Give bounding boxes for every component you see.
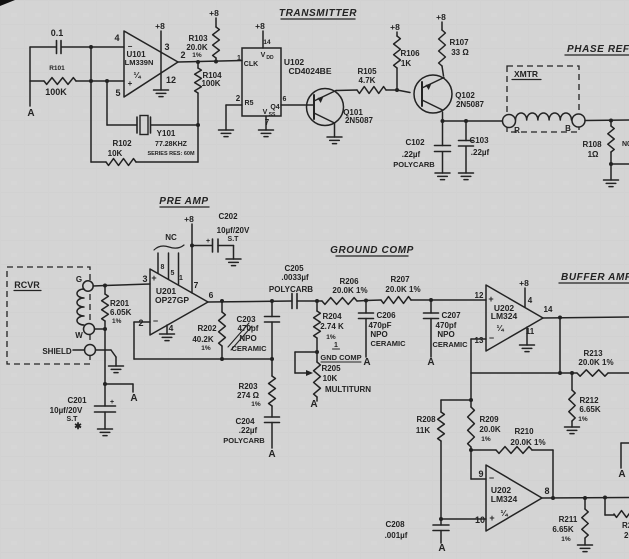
capacitor C201 10uf: [50, 396, 116, 431]
capacitor C205 .0033uf polycarb: [269, 264, 317, 309]
svg-text:1: 1: [179, 275, 183, 282]
capacitor C206 470pF: [359, 301, 407, 358]
svg-text:Q4: Q4: [270, 104, 279, 111]
svg-text:6.65K: 6.65K: [552, 525, 574, 534]
svg-text:G: G: [76, 275, 82, 284]
svg-text:−: −: [128, 42, 133, 51]
ground C102: [435, 173, 450, 180]
svg-text:A: A: [27, 108, 34, 119]
svg-text:20.0K 1%: 20.0K 1%: [578, 358, 613, 367]
svg-text:R201: R201: [110, 299, 130, 308]
svg-text:C207: C207: [441, 311, 461, 320]
node R204 junction: [315, 299, 319, 303]
svg-text:A: A: [427, 357, 434, 368]
svg-text:R209: R209: [479, 415, 499, 424]
svg-text:5: 5: [171, 270, 175, 277]
svg-text:.22µf: .22µf: [402, 150, 421, 159]
svg-text:✱: ✱: [74, 421, 82, 431]
wire main node down: [104, 329, 106, 406]
svg-text:+: +: [110, 399, 114, 406]
wire pin9: [471, 450, 486, 479]
power +8 U201 pin7: [184, 214, 194, 293]
ground SHIELD: [109, 366, 124, 373]
resistor R105 4.7K: [357, 67, 386, 93]
ground C202: [226, 259, 241, 266]
svg-text:OP27GP: OP27GP: [155, 295, 189, 305]
ground U102 RS: [219, 130, 234, 137]
svg-text:−: −: [489, 333, 494, 343]
svg-text:9: 9: [478, 469, 483, 479]
svg-text:RCVR: RCVR: [14, 280, 40, 290]
svg-text:R2: R2: [622, 521, 629, 530]
svg-text:4: 4: [114, 33, 119, 43]
svg-text:2: 2: [180, 50, 185, 60]
svg-text:6.05K: 6.05K: [110, 308, 132, 317]
svg-text:V: V: [261, 52, 266, 59]
svg-text:R202: R202: [197, 324, 217, 333]
nc pins bracket: [154, 233, 184, 285]
svg-text:0.1: 0.1: [51, 28, 64, 38]
svg-text:20.0K 1%: 20.0K 1%: [385, 285, 420, 294]
svg-text:A: A: [438, 543, 445, 554]
op-amp U101 LM339N: [114, 31, 178, 98]
svg-text:+8: +8: [390, 22, 400, 32]
svg-text:R5: R5: [245, 100, 254, 107]
ground U101 pin12: [154, 90, 169, 97]
svg-text:33 Ω: 33 Ω: [451, 48, 469, 57]
svg-text:10K: 10K: [323, 374, 338, 383]
wire G to U201 pin3: [93, 284, 150, 288]
svg-text:W: W: [75, 331, 83, 340]
svg-text:R206: R206: [339, 277, 359, 286]
wire Q101 emitter to R105: [336, 89, 357, 92]
svg-text:100K: 100K: [201, 79, 220, 88]
svg-text:14: 14: [544, 305, 553, 314]
svg-text:20.0K: 20.0K: [479, 425, 501, 434]
wire R101 to U101 pin5: [76, 79, 124, 83]
svg-text:+: +: [151, 273, 156, 283]
svg-text:+8: +8: [255, 21, 265, 31]
svg-text:B: B: [565, 124, 571, 133]
heading BUFFER AMP: [559, 272, 629, 283]
svg-text:1%: 1%: [112, 318, 122, 325]
resistor R103 20.0K: [186, 8, 219, 62]
resistor R201 6.05K: [102, 286, 132, 329]
svg-text:C102: C102: [405, 138, 425, 147]
node C207 junction: [429, 298, 433, 302]
power +8 U202a pin4: [519, 278, 529, 307]
resistor R211 6.65K: [552, 498, 588, 545]
svg-text:−: −: [153, 316, 158, 326]
svg-text:3: 3: [164, 42, 169, 52]
terminal SHIELD: [42, 345, 95, 357]
terminal G: [76, 275, 93, 291]
svg-text:20.0K 1%: 20.0K 1%: [510, 438, 545, 447]
correction scribble: [228, 323, 252, 350]
capacitor C208 .001uf: [385, 519, 449, 543]
svg-text:C205: C205: [284, 264, 304, 273]
resistor R208 11K: [416, 400, 445, 521]
capacitor C103 .22uf: [459, 121, 490, 173]
svg-text:20: 20: [624, 531, 629, 540]
svg-text:1%: 1%: [251, 401, 261, 408]
svg-text:4: 4: [528, 296, 533, 305]
svg-text:8: 8: [544, 486, 549, 496]
svg-text:NPO: NPO: [370, 330, 387, 339]
svg-text:.22µf: .22µf: [239, 426, 258, 435]
svg-text:POLYCARB: POLYCARB: [393, 160, 435, 169]
heading GROUND COMP: [330, 245, 414, 256]
svg-text:R213: R213: [583, 349, 603, 358]
svg-text:11K: 11K: [416, 426, 430, 435]
svg-text:R207: R207: [390, 275, 410, 284]
node A (R205): [310, 399, 317, 410]
resistor R202 40.2K: [192, 299, 225, 359]
svg-text:1Ω: 1Ω: [588, 150, 599, 159]
terminal R: [503, 115, 521, 136]
svg-text:8: 8: [161, 264, 165, 271]
svg-text:1: 1: [334, 342, 338, 349]
node A (C206): [363, 357, 370, 368]
svg-text:470pF: 470pF: [368, 321, 391, 330]
terminal W: [75, 324, 94, 341]
svg-text:+8: +8: [184, 214, 194, 224]
svg-text:−: −: [489, 473, 494, 483]
svg-text:12: 12: [475, 291, 484, 300]
svg-text:1%: 1%: [481, 436, 491, 443]
svg-text:BUFFER AMP: BUFFER AMP: [561, 272, 629, 283]
svg-text:+: +: [128, 79, 133, 88]
svg-text:R103: R103: [188, 34, 208, 43]
svg-text:1%: 1%: [192, 52, 202, 59]
svg-text:40.2K: 40.2K: [192, 335, 214, 344]
capacitor C207 470pf: [424, 300, 469, 357]
svg-text:C203: C203: [236, 315, 256, 324]
svg-text:LM324: LM324: [491, 494, 518, 504]
ground R212: [565, 427, 580, 434]
svg-text:TRANSMITTER: TRANSMITTER: [279, 8, 357, 19]
svg-text:R205: R205: [321, 364, 341, 373]
svg-text:MULTITURN: MULTITURN: [325, 385, 371, 394]
svg-text:77.28KHZ: 77.28KHZ: [155, 141, 188, 148]
capacitor 0.1: [51, 28, 64, 54]
svg-text:1%: 1%: [578, 416, 588, 423]
svg-text:1K: 1K: [401, 59, 411, 68]
wire U202a output: [543, 316, 629, 320]
svg-text:20.0K: 20.0K: [186, 43, 208, 52]
svg-text:C204: C204: [235, 417, 255, 426]
svg-text:Y101: Y101: [157, 129, 176, 138]
resistor R210 20.0K: [471, 427, 553, 498]
svg-text:SERIES RES: 60M: SERIES RES: 60M: [147, 151, 194, 157]
svg-text:A: A: [130, 393, 137, 404]
svg-text:+8: +8: [436, 12, 446, 22]
svg-text:¼: ¼: [496, 323, 504, 333]
crystal Y101 77.28KHz: [137, 116, 195, 158]
svg-text:10K: 10K: [108, 149, 123, 158]
svg-text:CD4024BE: CD4024BE: [289, 66, 332, 76]
svg-text:PRE AMP: PRE AMP: [159, 196, 208, 207]
svg-text:LM324: LM324: [491, 311, 518, 321]
svg-text:PHASE REFE: PHASE REFE: [567, 44, 629, 55]
wire U201 output: [208, 301, 292, 302]
ground C201: [98, 429, 113, 436]
power +8 U102 VDD: [255, 21, 271, 48]
transformer XMTR box: [507, 66, 579, 132]
svg-text:.0033µf: .0033µf: [281, 273, 309, 282]
svg-text:R210: R210: [514, 427, 534, 436]
ground C103: [459, 173, 474, 180]
node A (C207): [427, 357, 434, 368]
resistor R102 10K: [91, 125, 198, 165]
svg-text:C202: C202: [218, 212, 238, 221]
heading TRANSMITTER: [279, 8, 357, 19]
svg-text:C206: C206: [376, 311, 396, 320]
svg-text:470pf: 470pf: [238, 324, 259, 333]
svg-text:4: 4: [169, 323, 174, 333]
svg-text:+8: +8: [519, 278, 529, 288]
svg-text:1%: 1%: [201, 345, 211, 352]
svg-text:A: A: [363, 357, 370, 368]
resistor R204 2.74K: [314, 301, 344, 354]
svg-text:2.74 K: 2.74 K: [320, 322, 344, 331]
svg-text:C103: C103: [469, 136, 489, 145]
receiver RCVR box: [7, 267, 90, 364]
heading PHASE REFERENCE: [565, 44, 629, 55]
potentiometer R205 10K multiturn: [295, 342, 371, 401]
wire crystal to R104 node: [151, 123, 200, 127]
svg-text:GND COMP: GND COMP: [320, 353, 361, 362]
svg-text:R208: R208: [416, 415, 436, 424]
svg-text:1%: 1%: [561, 536, 571, 543]
wire Q102 collector to rail: [441, 112, 445, 123]
svg-text:R204: R204: [322, 312, 342, 321]
ground R108: [604, 164, 619, 187]
svg-text:6.65K: 6.65K: [579, 405, 601, 414]
node A (right edge): [618, 443, 629, 480]
op-amp U202a LM324: [475, 285, 553, 351]
svg-text:C208: C208: [385, 520, 405, 529]
wire W to main node: [95, 327, 108, 331]
svg-text:V: V: [263, 109, 268, 116]
svg-text:2N5087: 2N5087: [345, 116, 374, 125]
capacitor C202 10uf: [192, 212, 250, 259]
heading PRE AMP: [159, 196, 209, 207]
svg-text:NC: NC: [165, 233, 177, 242]
wire Q101 collector to ground: [334, 123, 336, 137]
svg-text:R101: R101: [49, 65, 65, 72]
wire transmitter rail: [443, 119, 503, 123]
wire R208/R209 tee: [441, 373, 473, 402]
capacitor C203 470pf: [232, 299, 280, 359]
transistor Q102 2N5087: [414, 75, 485, 113]
svg-text:6: 6: [283, 96, 287, 103]
svg-text:CERAMIC: CERAMIC: [232, 344, 268, 353]
node A (preamp): [103, 382, 138, 404]
svg-text:10: 10: [475, 515, 485, 525]
capacitor C102 .22uf polycarb: [393, 121, 450, 173]
svg-text:A: A: [310, 399, 317, 410]
resistor R101 100K: [30, 65, 76, 97]
svg-text:20.0K 1%: 20.0K 1%: [332, 286, 367, 295]
resistor R203 274ohm: [237, 359, 275, 417]
svg-text:2N5087: 2N5087: [456, 100, 485, 109]
svg-text:+8: +8: [209, 8, 219, 18]
svg-text:10µf/20V: 10µf/20V: [217, 226, 250, 235]
svg-text:DD: DD: [266, 55, 274, 61]
svg-text:NPO: NPO: [239, 334, 256, 343]
wire C207 to U202 pin12: [431, 299, 486, 301]
svg-text:Q102: Q102: [455, 91, 475, 100]
svg-text:.001µf: .001µf: [385, 531, 408, 540]
svg-text:5: 5: [115, 88, 120, 98]
wire to crystal Y101: [107, 81, 137, 125]
ground Q101: [327, 137, 342, 144]
svg-text:NPO: NPO: [437, 330, 454, 339]
resistor R104 100K: [195, 62, 223, 125]
wire U102 RS to ground: [226, 105, 242, 130]
svg-text:10µf/20V: 10µf/20V: [50, 406, 83, 415]
svg-text:¼: ¼: [133, 70, 141, 80]
svg-text:R212: R212: [579, 396, 599, 405]
wire U102 VSS to ground: [265, 116, 267, 130]
wire node A to C0.1: [30, 46, 56, 48]
wire SHIELD to ground: [96, 350, 117, 366]
op-amp U202b LM324: [475, 465, 550, 531]
resistor R107 33ohm: [436, 12, 469, 76]
svg-text:274 Ω: 274 Ω: [237, 391, 260, 400]
svg-text:SHIELD: SHIELD: [42, 347, 72, 356]
svg-text:R108: R108: [582, 140, 602, 149]
wire junction vertical to R102: [90, 47, 92, 162]
svg-text:R203: R203: [238, 382, 258, 391]
svg-text:7: 7: [194, 280, 199, 290]
svg-text:N0: N0: [622, 141, 629, 148]
resistor R213 20.0K: [577, 349, 629, 376]
inductor RCVR coil: [77, 289, 84, 325]
svg-text:1: 1: [237, 55, 241, 62]
svg-text:1%: 1%: [326, 334, 336, 341]
resistor R2xx (clipped): [605, 498, 629, 541]
svg-text:R107: R107: [449, 38, 469, 47]
ground U102 VSS: [259, 130, 274, 137]
svg-text:XMTR: XMTR: [514, 69, 538, 79]
wire U201 pin2 feedback: [134, 322, 274, 361]
svg-text:R: R: [514, 126, 520, 135]
svg-text:+: +: [206, 238, 210, 245]
node A (input, top-left): [27, 47, 34, 119]
resistor R212 6.65K: [569, 373, 601, 427]
svg-text:4.7K: 4.7K: [359, 76, 376, 85]
svg-text:470pf: 470pf: [436, 321, 457, 330]
svg-text:LM339N: LM339N: [125, 58, 154, 67]
text fragment N0 (clipped): [622, 141, 629, 148]
svg-text:13: 13: [475, 336, 484, 345]
ground R211: [578, 545, 593, 552]
svg-text:+: +: [489, 513, 494, 523]
svg-text:SS: SS: [269, 112, 276, 118]
svg-text:S.T: S.T: [228, 236, 240, 243]
wire U202a feedback: [471, 318, 577, 376]
svg-text:14: 14: [263, 39, 271, 46]
op-amp U201 OP27GP: [138, 269, 213, 335]
svg-text:POLYCARB: POLYCARB: [269, 285, 313, 294]
svg-text:¼: ¼: [500, 508, 508, 518]
resistor R207 20.0K: [366, 275, 431, 303]
node A (C204): [268, 449, 275, 460]
svg-text:GROUND COMP: GROUND COMP: [330, 245, 414, 256]
wire C0.1 to U101 pin4: [62, 45, 125, 49]
transistor Q101 2N5087: [307, 89, 374, 126]
svg-text:R106: R106: [400, 49, 420, 58]
svg-text:A: A: [618, 469, 625, 480]
svg-text:100K: 100K: [45, 87, 67, 97]
svg-text:R211: R211: [559, 515, 578, 524]
inductor XMTR coil: [516, 113, 572, 120]
svg-text:R105: R105: [357, 67, 377, 76]
wire U101 output to U102 CLK: [178, 50, 242, 64]
svg-text:3: 3: [142, 274, 147, 284]
svg-text:2: 2: [138, 318, 143, 328]
svg-text:12: 12: [166, 75, 176, 85]
svg-text:CERAMIC: CERAMIC: [371, 339, 407, 348]
resistor R106 1K: [390, 22, 420, 90]
wire U102 Q4 to Q101 base: [281, 104, 314, 106]
wire B to right edge: [585, 119, 629, 123]
scan corner mark: [0, 0, 15, 6]
svg-text:R102: R102: [112, 139, 132, 148]
svg-text:CLK: CLK: [244, 61, 258, 68]
svg-text:6: 6: [209, 290, 214, 300]
svg-text:+8: +8: [155, 21, 165, 31]
ic U102 CD4024BE: [236, 48, 332, 127]
svg-text:.22µf: .22µf: [471, 148, 490, 157]
resistor R108 1ohm: [582, 121, 614, 167]
resistor R209 20.0K: [468, 400, 501, 452]
terminal B: [565, 114, 585, 133]
svg-text:CERAMIC: CERAMIC: [433, 340, 469, 349]
wire R105 to Q102 base: [386, 88, 410, 93]
wire R108 junction to edge: [611, 163, 629, 165]
wire U202b output: [542, 496, 629, 501]
power +8 U101 pin3: [155, 21, 165, 90]
ground U202a pin11: [520, 327, 535, 352]
wire pin10: [441, 518, 486, 520]
svg-text:A: A: [268, 449, 275, 460]
svg-text:+: +: [488, 294, 493, 304]
node C206 junction: [364, 299, 368, 303]
svg-text:2: 2: [236, 94, 241, 103]
svg-text:POLYCARB: POLYCARB: [223, 436, 265, 445]
node A (C208): [438, 543, 445, 554]
resistor R206 20.0K: [317, 277, 368, 304]
ground U201 pin4: [160, 325, 175, 341]
svg-text:C201: C201: [67, 396, 87, 405]
capacitor C204 .22uf polycarb: [223, 417, 279, 448]
